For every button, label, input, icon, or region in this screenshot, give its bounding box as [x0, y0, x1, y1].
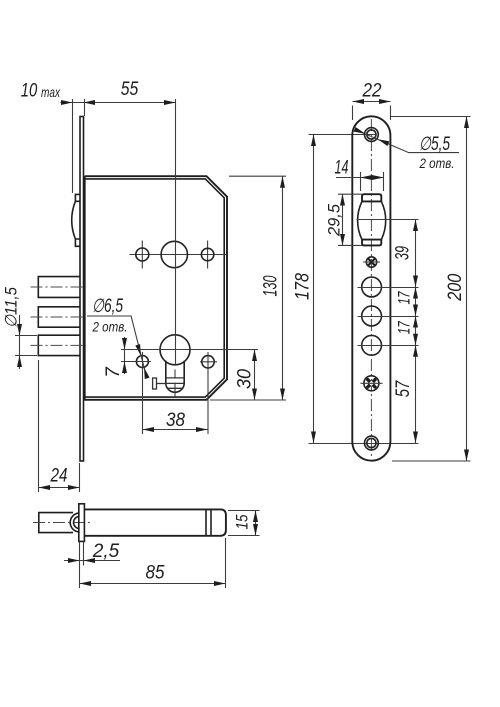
dimension 7 [103, 337, 258, 378]
svg-text:10: 10 [21, 81, 38, 102]
dimension 130 [229, 176, 286, 400]
svg-text:24: 24 [50, 466, 68, 487]
large cross screw lower [361, 376, 383, 391]
svg-text:2 отв.: 2 отв. [419, 155, 455, 171]
dimension 85 [80, 538, 226, 588]
svg-text:200: 200 [445, 273, 466, 301]
svg-text:17: 17 [396, 291, 414, 305]
svg-text:17: 17 [396, 321, 414, 335]
latch bolt barrel [357, 201, 419, 239]
follower hole (square spindle) [161, 241, 187, 267]
dimension 178 [293, 135, 419, 444]
faceplate outline (front view) [352, 116, 390, 460]
svg-text:15: 15 [234, 514, 252, 530]
dimension 38 [143, 352, 208, 434]
dimension 29.5 [326, 194, 363, 246]
svg-text:57: 57 [393, 380, 414, 398]
bolt pin flange [79, 504, 85, 542]
mounting hole left (phi 6.5) [134, 356, 151, 368]
top countersunk screw hole [365, 128, 379, 142]
euro cylinder hole [160, 335, 190, 397]
lock faceplate strip (side view) [80, 117, 84, 462]
svg-text:∅6,5: ∅6,5 [92, 296, 123, 317]
svg-text:14: 14 [335, 158, 349, 179]
dimension 55 [121, 79, 176, 365]
dimension 200 [391, 117, 471, 462]
svg-text:22: 22 [362, 80, 382, 101]
deadbolt hole 3 (front view) [358, 335, 419, 355]
bolt pin head arcs [70, 513, 79, 532]
latch bolt head (side view) [72, 194, 80, 246]
svg-text:39: 39 [393, 246, 414, 260]
bolt pin body [84, 509, 226, 535]
dimension 15 [228, 511, 260, 536]
dimension 10 max [21, 81, 176, 194]
lock body outline (side view) [85, 176, 227, 400]
svg-text:30: 30 [235, 369, 256, 389]
bolt pin stem (bottom view) [33, 513, 91, 533]
dimension 22 [353, 80, 391, 120]
deadbolt hole 2 (front view) [358, 306, 419, 326]
dimension phi 11.5 [3, 286, 38, 369]
screw post hole left [136, 248, 149, 261]
dimension 14 [335, 158, 384, 192]
leader phi 5.5 2 holes [354, 127, 459, 171]
svg-text:∅5,5: ∅5,5 [419, 134, 450, 155]
svg-text:130: 130 [261, 275, 282, 296]
svg-text:38: 38 [166, 410, 185, 431]
small cross screw upper [363, 257, 380, 267]
svg-text:55: 55 [121, 79, 139, 100]
follower holes row centerline [130, 241, 227, 269]
mounting hole right (phi 6.5) [200, 352, 217, 434]
deadbolt pin 3 (side view) [31, 335, 84, 355]
deadbolt hole 1 (front view) [358, 277, 419, 297]
deadbolt pin 2 (side view) [31, 307, 84, 327]
dimension 30 [210, 350, 286, 401]
svg-text:7: 7 [103, 366, 124, 378]
bottom countersunk screw hole [365, 436, 379, 450]
latch window (front view) [362, 194, 381, 245]
svg-text:2,5: 2,5 [92, 541, 120, 562]
dimension 2.5 [64, 541, 120, 588]
svg-text:85: 85 [146, 563, 165, 584]
svg-text:∅11,5: ∅11,5 [3, 286, 21, 328]
cylinder fixing screw symbol [153, 378, 166, 389]
dimension 24 [39, 360, 80, 492]
svg-text:max: max [41, 84, 61, 100]
svg-text:178: 178 [293, 273, 314, 300]
leader phi 6.5 2 holes [87, 296, 150, 379]
svg-text:29,5: 29,5 [326, 203, 344, 237]
svg-text:2 отв.: 2 отв. [92, 319, 128, 335]
dimension chain 39/17/17/57 [393, 220, 419, 444]
screw post hole right [201, 248, 213, 260]
deadbolt pin 1 (side view) [31, 277, 84, 298]
